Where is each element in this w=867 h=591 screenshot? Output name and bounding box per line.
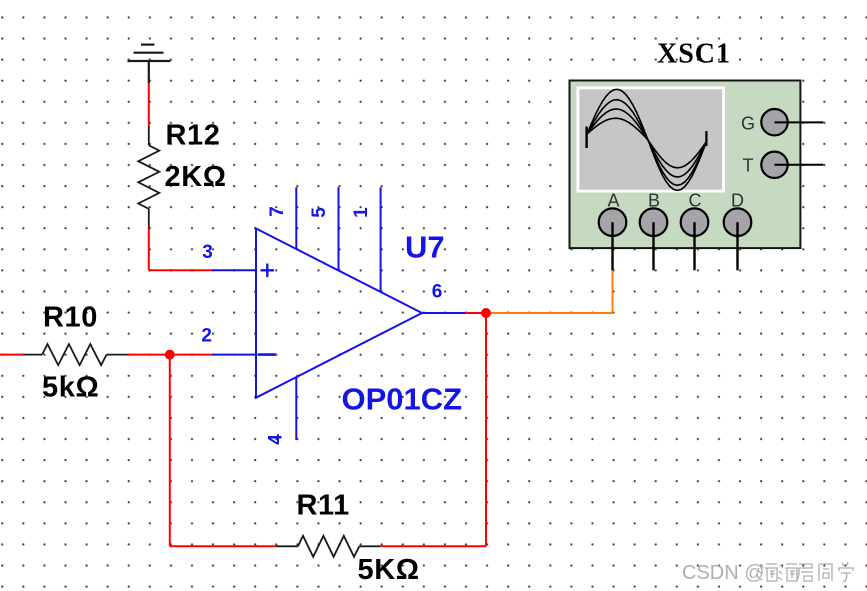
char 居 (797, 564, 813, 581)
terminal A (599, 208, 627, 236)
wire feedback left vertical (red) (169, 355, 171, 547)
wire R11 left (red) (170, 545, 276, 547)
op-amp U7 (212, 187, 465, 440)
svg-text:5kΩ: 5kΩ (42, 372, 99, 404)
junction node at output (481, 308, 491, 318)
wire R10 to junction (red) (128, 354, 213, 356)
char 滴 (778, 564, 798, 581)
terminal D (724, 208, 752, 236)
junction node at inverting input (165, 350, 175, 360)
XSC1 screen waveform (587, 89, 707, 190)
char 同 (819, 564, 832, 581)
svg-text:1: 1 (351, 207, 372, 218)
svg-text:XSC1: XSC1 (657, 39, 731, 70)
terminal B (640, 208, 668, 236)
svg-text:D: D (731, 191, 744, 211)
watermark (682, 562, 854, 585)
ground (128, 45, 171, 83)
svg-text:T: T (743, 156, 754, 176)
pin 1 line (380, 187, 382, 292)
svg-text:G: G (741, 114, 755, 134)
wire R12 bottom (red) (148, 228, 150, 270)
XSC1 screen (577, 87, 725, 193)
pin 7 line (295, 187, 297, 249)
resistor R10 (24, 344, 128, 365)
svg-text:2: 2 (201, 326, 212, 347)
wire stub A (611, 222, 613, 270)
op-amp triangle (256, 229, 422, 398)
wire stub D (736, 222, 738, 270)
svg-text:B: B (648, 191, 660, 211)
pin 3 lead (212, 269, 256, 271)
svg-text:R12: R12 (166, 120, 221, 152)
terminal T (761, 152, 787, 178)
pin 2 lead (212, 354, 256, 356)
char 学 (838, 562, 854, 581)
terminal C (681, 208, 709, 236)
svg-text:OP01CZ: OP01CZ (342, 382, 463, 417)
pin 5 line (338, 187, 340, 271)
svg-text:U7: U7 (405, 230, 445, 265)
wire to noninverting input (red) (149, 269, 212, 271)
wire R11 right (red) (380, 545, 486, 547)
svg-text:2KΩ: 2KΩ (165, 161, 227, 193)
wire output short (red) (464, 312, 486, 314)
plus marker (261, 269, 275, 271)
svg-text:A: A (607, 191, 619, 211)
terminal G (761, 109, 787, 135)
pin 4 line (295, 377, 297, 440)
svg-text:6: 6 (432, 282, 443, 303)
wire stub C (693, 222, 695, 270)
svg-text:5: 5 (309, 207, 330, 218)
minus marker (258, 353, 276, 356)
svg-text:5KΩ: 5KΩ (358, 554, 420, 586)
char 滴 (758, 564, 778, 581)
resistor R12 (138, 125, 159, 228)
wire feedback right vertical (red) (485, 313, 487, 546)
svg-text:R11: R11 (297, 490, 350, 522)
wire R12 top (red) (148, 83, 150, 125)
svg-text:4: 4 (265, 434, 286, 445)
svg-text:CSDN @: CSDN @ (682, 562, 765, 584)
pin 6 output lead (422, 312, 465, 314)
wire scope net (orange) (486, 270, 613, 313)
svg-text:7: 7 (267, 206, 288, 217)
oscilloscope XSC1 (570, 39, 824, 271)
resistor R11 (276, 536, 380, 557)
svg-text:C: C (689, 191, 702, 211)
svg-text:3: 3 (202, 242, 213, 263)
wire T lead (775, 164, 824, 166)
wire stub B (652, 222, 654, 270)
wire input net (red) (0, 354, 24, 356)
svg-text:R10: R10 (43, 302, 98, 334)
XSC1 body (570, 81, 801, 249)
wire G lead (775, 121, 824, 123)
